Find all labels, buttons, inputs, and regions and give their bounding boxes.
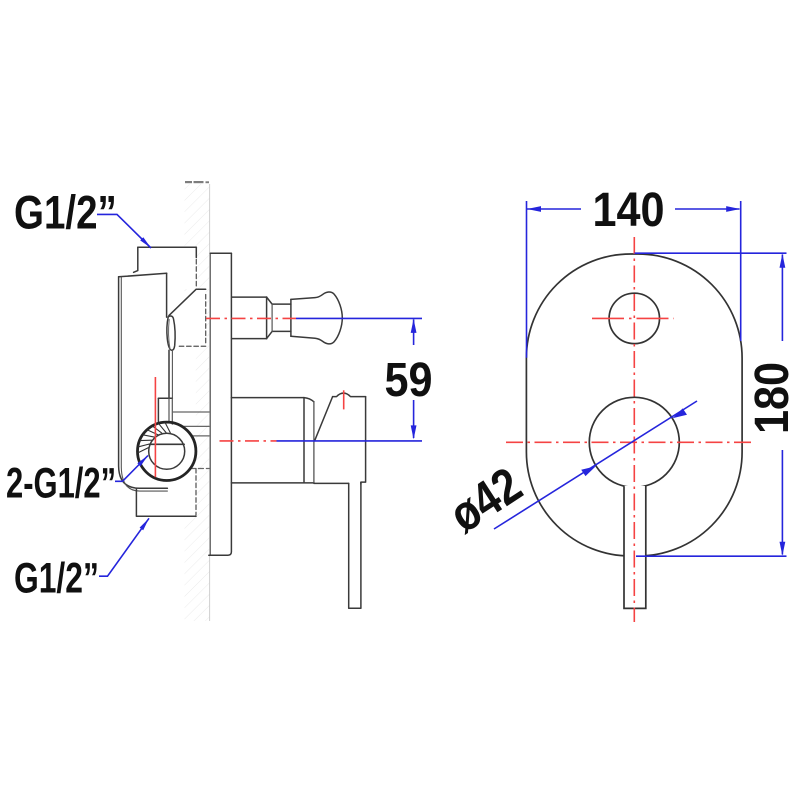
dim text 140 [593, 183, 665, 237]
dim 59 line lower [413, 400, 415, 438]
plate left inner edge [121, 277, 167, 491]
handle bar front view [624, 485, 646, 608]
cartridge diagonal [169, 289, 206, 315]
dim 140 ext left [526, 201, 528, 358]
wall front face [209, 253, 211, 555]
dim 59 extension top [296, 317, 422, 319]
180 down arrow [780, 542, 786, 556]
front view vertical axis [633, 237, 635, 622]
handle base top with screw bump [333, 393, 366, 397]
knob neck [272, 304, 291, 331]
dim 59 line upper [413, 319, 415, 345]
port slot chord [149, 443, 184, 445]
label G1/2 bottom [14, 555, 99, 603]
cartridge housing [231, 397, 304, 399]
handle base right edge [361, 397, 366, 484]
dim text dia42 [439, 456, 531, 543]
svg-text:180: 180 [745, 362, 799, 434]
top block right edge hidden [195, 260, 197, 289]
leader arrow to bottom block [140, 518, 149, 530]
top block left edge [134, 247, 138, 272]
wall hatch band [185, 184, 210, 621]
top block right edge solid [195, 247, 197, 257]
lower block [136, 489, 196, 516]
white occluders: body hides hatch [169, 247, 206, 516]
G1/2 top leader [97, 214, 151, 248]
59 down arrow [411, 425, 417, 439]
port ring knurl ticks [138, 423, 170, 453]
cartridge hidden right edge [205, 295, 207, 344]
seat lines [173, 411, 210, 413]
knob head [290, 299, 292, 336]
cartridge hidden bottom edge [179, 345, 206, 347]
2-G1/2 leader [115, 456, 148, 482]
svg-text:140: 140 [593, 183, 665, 237]
wall top edge [210, 252, 231, 254]
wall back face [209, 253, 232, 555]
label G1/2 top [14, 187, 117, 239]
plate top edge [119, 273, 167, 277]
port outer circle [138, 422, 196, 480]
dim text 59 [385, 353, 433, 407]
140 right arrow [726, 206, 740, 212]
leader arrow to port [137, 456, 148, 467]
cartridge axis [220, 440, 277, 442]
svg-text:G1/2”: G1/2” [14, 555, 99, 603]
59 up arrow [411, 319, 417, 333]
label 2-G1/2 [6, 458, 116, 506]
wall faint front boundary [209, 184, 211, 621]
svg-text:59: 59 [385, 353, 433, 407]
dim 140 ext right [740, 201, 742, 341]
dia42 lower arrow [581, 466, 596, 476]
blue arrowheads [137, 206, 785, 556]
handle shaft [349, 482, 361, 608]
svg-text:ø42: ø42 [439, 456, 531, 543]
small circle horizontal axis [592, 317, 674, 319]
140 left arrow [527, 206, 541, 212]
small circle [609, 293, 659, 343]
handle base bottom [314, 482, 349, 484]
front view main horizontal axis [506, 441, 755, 443]
plate right edge lower [168, 350, 170, 398]
leader arrow to top block [140, 237, 151, 248]
180 up arrow [780, 254, 786, 268]
port axis vertical [154, 377, 156, 477]
dia42 upper arrow [672, 408, 687, 418]
port stub tab [158, 397, 172, 399]
knob axis [206, 317, 296, 319]
handle collar slant [315, 397, 333, 441]
dia 42 line [494, 401, 697, 529]
G1/2 bottom leader [99, 518, 149, 576]
dim 180 ext top [635, 252, 787, 254]
svg-text:2-G1/2”: 2-G1/2” [6, 458, 116, 506]
top block top edge [138, 246, 197, 248]
dim 180 ext bottom [636, 555, 787, 557]
dim 180 line [781, 255, 783, 342]
large circle [589, 397, 679, 487]
port inner circle [149, 433, 185, 469]
dim 59 extension bottom [277, 440, 423, 442]
dim text 180 [745, 362, 799, 434]
svg-text:G1/2”: G1/2” [14, 187, 117, 239]
cartridge nose blob [167, 316, 175, 350]
oval plate [526, 254, 742, 556]
screw axis [343, 390, 345, 409]
dim 140 line [527, 208, 581, 210]
knob stem wide [232, 297, 267, 339]
tiny watermark text [185, 181, 209, 183]
plate right edge upper [166, 273, 168, 317]
plate left outer edge [119, 277, 168, 489]
